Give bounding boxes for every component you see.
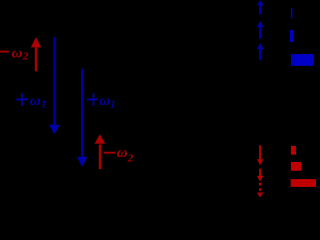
blue cascade up arrow 3: [259, 49, 261, 61]
blue population bar level 2: [290, 30, 293, 42]
blue cascade up arrow 2: [259, 27, 261, 39]
svg-text:ω: ω: [30, 93, 41, 109]
label +w1 middle: [87, 93, 116, 111]
blue down arrow 2 (+w1 interaction, left diagram): [77, 69, 88, 167]
blue cascade up arrow 1 (top, clipped at edge): [259, 5, 261, 15]
red population bar level 3 (largest): [291, 179, 316, 187]
blue down arrow 1 (+w1 interaction, left diagram): [49, 37, 60, 134]
blue population bar level 3 (smallest): [291, 8, 293, 18]
red cascade down arrow 2: [259, 169, 261, 176]
svg-text:2: 2: [22, 50, 29, 62]
svg-text:2: 2: [127, 152, 134, 164]
red population bar level 2: [291, 162, 301, 171]
label -w2 bottom: [104, 145, 134, 164]
red up arrow 2 (-w2 interaction, left diagram): [95, 134, 106, 169]
svg-text:1: 1: [41, 99, 47, 111]
blue population bar level 1 (largest): [291, 54, 314, 66]
svg-text:ω: ω: [99, 93, 110, 109]
red up arrow (-w2 interaction, left diagram): [31, 37, 41, 71]
svg-text:1: 1: [110, 99, 116, 111]
label +w1 left: [16, 93, 46, 111]
red cascade down arrow 3 (dashed): [259, 183, 261, 186]
red population bar level 1 (smallest): [291, 146, 296, 155]
red cascade down arrow 1: [259, 145, 261, 159]
svg-text:ω: ω: [12, 46, 23, 62]
svg-text:ω: ω: [117, 145, 128, 161]
label -w2 top-left: [0, 46, 29, 63]
